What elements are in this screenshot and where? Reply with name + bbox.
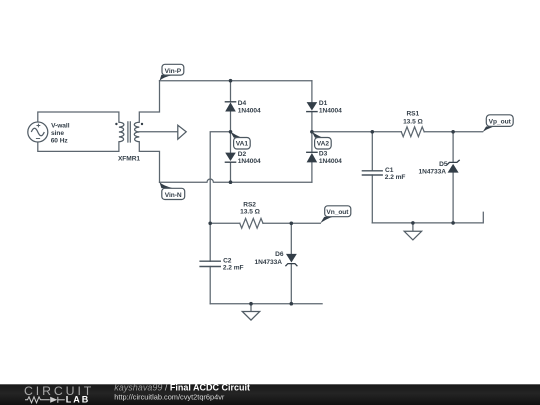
svg-text:LAB: LAB [66,395,91,405]
svg-text:2.2 mF: 2.2 mF [385,174,406,181]
svg-text:Vin-P: Vin-P [165,68,182,75]
svg-text:Vin-N: Vin-N [165,192,182,199]
svg-text:VA1: VA1 [236,141,249,148]
svg-text:V-wall: V-wall [51,122,70,129]
svg-text:Vp_out: Vp_out [489,118,512,125]
svg-text:13.5 Ω: 13.5 Ω [240,209,260,216]
svg-text:D1: D1 [319,100,328,107]
svg-text:1N4004: 1N4004 [319,107,342,114]
svg-text:http://circuitlab.com/cvyt2tqr: http://circuitlab.com/cvyt2tqr6p4vr [114,392,225,401]
svg-text:Vn_out: Vn_out [326,209,349,216]
svg-text:RS1: RS1 [406,110,419,117]
svg-text:1N4733A: 1N4733A [254,259,282,266]
svg-text:RS2: RS2 [243,201,256,208]
svg-text:D6: D6 [275,251,284,258]
svg-text:1N4733A: 1N4733A [418,168,446,175]
svg-text:D3: D3 [319,151,328,158]
svg-text:XFMR1: XFMR1 [118,156,140,163]
svg-text:60 Hz: 60 Hz [51,138,69,145]
svg-text:13.5 Ω: 13.5 Ω [403,119,423,126]
svg-text:1N4004: 1N4004 [319,158,342,165]
svg-text:kayshava99 / Final ACDC Circui: kayshava99 / Final ACDC Circuit [114,383,250,393]
svg-text:C2: C2 [223,257,232,264]
svg-text:D2: D2 [238,151,247,158]
svg-text:D4: D4 [238,100,247,107]
svg-text:sine: sine [51,130,64,137]
svg-text:D5: D5 [439,161,448,168]
svg-text:1N4004: 1N4004 [238,158,261,165]
svg-text:1N4004: 1N4004 [238,107,261,114]
svg-text:2.2 mF: 2.2 mF [223,265,244,272]
svg-text:C1: C1 [385,167,394,174]
svg-text:VA2: VA2 [317,141,330,148]
